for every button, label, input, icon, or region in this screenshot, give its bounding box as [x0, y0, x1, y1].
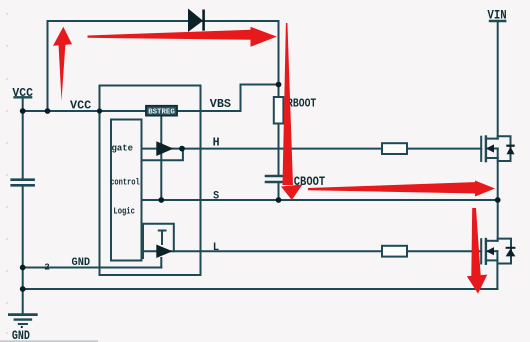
node VCC terminal: [20, 108, 26, 114]
svg-text:Logic: Logic: [113, 206, 134, 216]
MOSFET Q1 drain stub: [486, 138, 498, 140]
op-amp buffer U1A (high side driver): [156, 141, 173, 156]
terminal VCC: [15, 96, 32, 98]
diode D1 (bootstrap): [188, 9, 204, 33]
wire VBS jog: [241, 85, 279, 112]
capacitor CBOOT plates: [266, 175, 288, 178]
resistor Rg1: [382, 143, 407, 154]
svg-text:L: L: [213, 242, 220, 254]
edge artifacts: [6, 13, 8, 334]
ground symbol dot: [21, 326, 23, 328]
ground symbol: [9, 313, 36, 316]
red arrow right (S line): [308, 181, 495, 197]
level shifter T symbol: [159, 230, 166, 232]
MOSFET Q2 gate/channel: [480, 239, 482, 263]
red arrow down (low side): [467, 208, 488, 294]
node S switch: [495, 197, 501, 203]
MOSFET Q1 body diode loop: [498, 136, 511, 161]
node S internal: [158, 197, 164, 203]
svg-text:GND: GND: [12, 328, 30, 342]
svg-text:2: 2: [44, 261, 50, 272]
wire GND pin: [23, 267, 162, 269]
MOSFET Q2 body diode loop: [498, 239, 511, 264]
node VCC riser: [45, 108, 51, 114]
op-amp buffer U1B (low side driver): [156, 245, 172, 259]
MOSFET Q1 body stub: [486, 148, 498, 150]
svg-text:VCC: VCC: [70, 98, 92, 112]
MOSFET Q1 source stub: [486, 157, 498, 159]
wire bootstrap below CBOOT: [278, 183, 280, 200]
MOSFET Q1 body arrow: [486, 144, 494, 152]
wire VCC riser: [47, 21, 49, 111]
resistor Rg2: [382, 246, 407, 257]
capacitor C1 plates: [12, 178, 34, 181]
node VBS/bootstrap: [276, 82, 282, 88]
wire bottom rail: [23, 288, 498, 290]
node VCC pin: [97, 108, 102, 113]
BSTREG regulator box: [146, 106, 177, 117]
MOSFET Q2 body diode symbol: [506, 248, 516, 257]
resistor RBOOT: [274, 97, 284, 124]
MOSFET Q2 source stub: [486, 259, 498, 261]
red arrow right (top rail): [88, 27, 277, 47]
MOSFET Q2 source down: [496, 251, 498, 289]
wire low driver to GND: [160, 258, 162, 268]
wire S line: [142, 199, 498, 201]
wire left rail upper: [22, 111, 24, 179]
red arrow down (bootstrap): [281, 23, 303, 200]
wire H feedback: [142, 149, 183, 161]
svg-text:VIN: VIN: [487, 8, 506, 22]
MOSFET Q2 drain stub: [486, 240, 498, 242]
node S CBOOT: [276, 197, 282, 203]
wire left rail lower: [22, 186, 24, 314]
svg-text:VBS: VBS: [210, 97, 231, 111]
svg-text:VCC: VCC: [12, 86, 33, 100]
wire L line: [142, 250, 482, 252]
node GND pin: [20, 265, 26, 271]
svg-text:S: S: [213, 190, 219, 202]
red arrow up (VCC charge path): [53, 27, 72, 101]
svg-text:control: control: [110, 177, 140, 187]
level shifter box: [143, 224, 174, 258]
node GND rail: [20, 286, 26, 292]
wire H line: [142, 148, 482, 150]
node driver H output: [179, 146, 185, 152]
svg-text:RBOOT: RBOOT: [287, 97, 316, 111]
MOSFET Q1 source down: [497, 149, 499, 201]
wire VCC horizontal: [23, 110, 241, 112]
terminal VIN: [490, 20, 505, 22]
wire S to Q2 drain: [497, 200, 499, 241]
svg-text:H: H: [213, 136, 220, 149]
gate control logic box: [111, 120, 142, 261]
MOSFET Q1 gate/channel: [480, 137, 482, 161]
BSTREG stem: [160, 115, 162, 200]
svg-text:GND: GND: [72, 257, 91, 269]
svg-text:BSTREG: BSTREG: [148, 108, 175, 116]
wire top bootstrap rail: [48, 21, 279, 97]
wire bootstrap mid: [278, 124, 280, 176]
svg-text:gate: gate: [112, 144, 134, 154]
MOSFET Q1 body diode symbol: [506, 146, 514, 155]
MOSFET Q2 body arrow: [486, 247, 494, 255]
MOSFET Q2 body stub: [486, 250, 498, 252]
IC U1 outline: [100, 86, 201, 276]
